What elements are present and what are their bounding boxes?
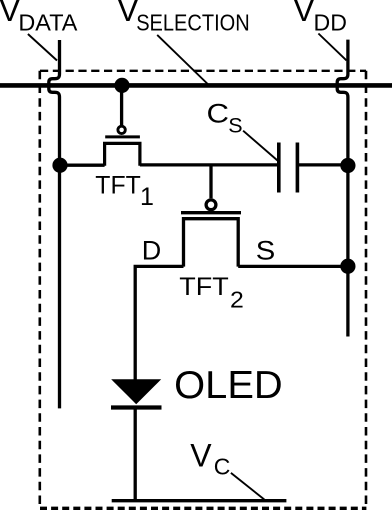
pointer line: V_DD label to supply line xyxy=(318,34,346,61)
svg-text:1: 1 xyxy=(140,183,154,211)
dashed pixel-cell boundary box xyxy=(40,71,367,509)
transistor TFT1 (p-type TFT) xyxy=(105,126,140,166)
wire: TFT2 source to VDD line xyxy=(238,265,348,268)
wire: V_SELECTION row line (horizontal bus) xyxy=(0,83,392,88)
wire: V_DATA column line (with hop over selection line) xyxy=(49,40,60,408)
svg-text:TFT: TFT xyxy=(179,273,229,301)
wire: TFT1 right terminal to storage node xyxy=(140,163,277,166)
svg-text:DATA: DATA xyxy=(18,10,78,36)
svg-text:TFT: TFT xyxy=(95,172,141,200)
svg-text:C: C xyxy=(214,454,231,480)
transistor TFT2 (p-type TFT, drive transistor) xyxy=(181,200,241,267)
wire: OLED cathode down to VC rail xyxy=(134,408,137,501)
pointer line: V_DATA label to data line xyxy=(28,34,57,61)
wire: TFT1 gate lead xyxy=(120,85,123,125)
svg-text:C: C xyxy=(207,99,230,129)
wire: TFT1 left terminal to data line xyxy=(60,164,105,167)
svg-text:2: 2 xyxy=(230,286,244,312)
diode OLED (anode triangle + cathode bar) xyxy=(111,379,162,407)
wire: TFT2 gate tap from storage node xyxy=(209,165,212,198)
svg-text:DD: DD xyxy=(314,10,347,36)
pointer line: V_SELECTION label to selection line xyxy=(157,35,208,84)
svg-text:S: S xyxy=(228,113,242,137)
wire: V_DD supply line (with hop over selection line) xyxy=(337,40,348,337)
svg-text:V: V xyxy=(293,0,315,28)
svg-text:D: D xyxy=(142,235,162,265)
junction dot: TFT2 source to VDD line xyxy=(340,259,355,274)
pointer line: CS label to capacitor xyxy=(243,131,277,161)
junction dot: selection line to TFT1 gate xyxy=(114,78,129,93)
wire: TFT2 drain to OLED anode xyxy=(135,266,183,380)
wire: CS right plate to VDD line xyxy=(297,163,348,166)
svg-text:SELECTION: SELECTION xyxy=(136,10,250,36)
pointer line: VC label to cathode rail xyxy=(231,473,264,500)
svg-text:V: V xyxy=(190,438,212,474)
svg-text:OLED: OLED xyxy=(174,364,283,407)
wire: VC cathode rail xyxy=(112,499,287,502)
svg-text:S: S xyxy=(256,236,275,266)
junction dot: CS to VDD line xyxy=(340,158,355,173)
capacitor CS xyxy=(279,143,298,193)
junction dot: data line to TFT1 left terminal xyxy=(52,158,67,173)
